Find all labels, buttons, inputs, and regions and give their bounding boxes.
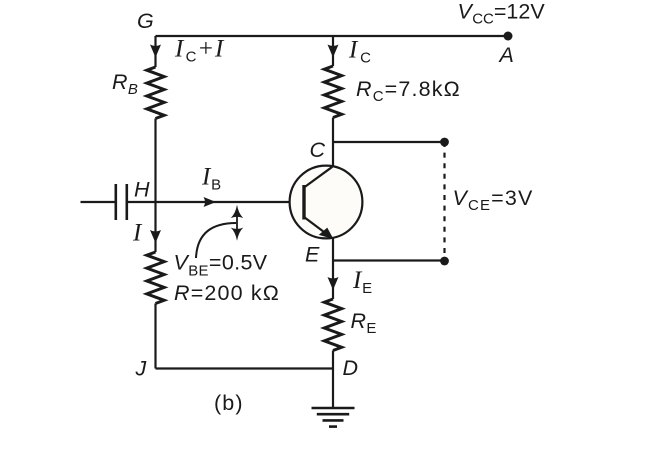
svg-text:RC=7.8kΩ: RC=7.8kΩ — [356, 77, 461, 105]
arrow IC+I (down, on left branch) — [150, 45, 161, 58]
VBE double arrow — [231, 205, 243, 241]
svg-text:VCC=12V: VCC=12V — [458, 0, 546, 27]
capacitor lead left — [81, 201, 116, 203]
svg-text:IC: IC — [348, 37, 372, 67]
svg-text:VBE=0.5V: VBE=0.5V — [174, 251, 268, 280]
wire emitter node to dashed probe — [333, 259, 445, 261]
svg-text:IB: IB — [201, 164, 222, 194]
svg-text:A: A — [498, 43, 515, 67]
svg-text:I: I — [132, 220, 143, 247]
node A dot — [504, 32, 513, 41]
probe dot bottom (emitter) — [440, 257, 449, 266]
dashed line VCE probe — [443, 142, 445, 261]
wire left vertical middle (RB bottom through H to R top) — [154, 119, 156, 253]
wire emitter to E node — [332, 238, 334, 300]
transistor Q1 body — [290, 166, 363, 239]
svg-text:RE: RE — [351, 309, 377, 337]
wire collector node to dashed probe — [333, 141, 445, 143]
arrow I (down, below H) — [150, 230, 161, 243]
resistor RB — [147, 67, 164, 119]
wire D to ground — [332, 369, 334, 408]
svg-text:VCE=3V: VCE=3V — [453, 186, 534, 214]
capacitor plates — [116, 184, 127, 220]
svg-text:R=200 kΩ: R=200 kΩ — [174, 281, 280, 305]
svg-text:(b): (b) — [214, 391, 244, 415]
probe dot top (collector) — [440, 138, 449, 147]
wire top rail G to A — [156, 35, 509, 37]
transistor Q1 emitter diagonal — [304, 217, 330, 237]
svg-text:H: H — [134, 177, 150, 201]
arrow IB (right, on base wire) — [204, 197, 217, 207]
svg-text:G: G — [137, 9, 154, 33]
wire base (H to transistor base) — [127, 201, 304, 203]
wire bottom J to D — [156, 367, 334, 369]
ground — [312, 408, 355, 427]
arrow IE (down, on emitter branch) — [328, 277, 339, 290]
resistor RE — [324, 299, 341, 351]
VBE leader arc — [196, 223, 236, 258]
wire left vertical upper (G to RB top) — [154, 36, 156, 67]
svg-text:D: D — [343, 356, 359, 380]
wire left vertical lower (R bottom to J) — [154, 304, 156, 369]
wire RE bottom to D — [332, 351, 334, 369]
wire RC bottom to transistor collector — [332, 118, 334, 167]
svg-text:E: E — [305, 243, 320, 267]
transistor Q1 collector diagonal — [304, 167, 332, 188]
transistor Q1 base bar — [302, 185, 305, 220]
resistor R 200k — [147, 252, 164, 304]
svg-text:IC+I: IC+I — [174, 36, 225, 66]
transistor Q1 emitter arrowhead — [320, 228, 333, 238]
svg-text:RB: RB — [112, 70, 138, 98]
svg-text:J: J — [135, 357, 147, 381]
wire right vertical upper (rail to RC top) — [332, 36, 334, 66]
resistor RC — [324, 66, 341, 118]
svg-text:C: C — [310, 138, 326, 162]
svg-text:IE: IE — [352, 267, 373, 297]
arrow IC (down, on right branch) — [328, 45, 339, 58]
